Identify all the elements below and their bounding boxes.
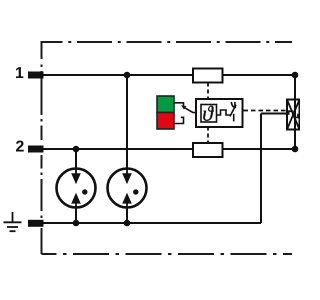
dashed link monitor to arrester: [244, 110, 287, 112]
status indicator green cell: [157, 96, 174, 113]
wire ground bus: [43, 222, 261, 224]
junction node line2/GDT1: [73, 146, 80, 153]
thermal sensor inner box: [201, 105, 217, 123]
wire arrester branch (line1 to line2): [294, 75, 296, 149]
wire GDT1 bottom drop: [75, 206, 77, 223]
label terminal 1: [16, 67, 23, 78]
enclosure border top (dash-dot): [42, 41, 293, 43]
gas discharge tube F2 (line1 - ground): [108, 169, 147, 208]
changeover contact upper fixed: [174, 103, 184, 106]
junction node line1/arrester: [292, 72, 299, 79]
dashed link monitor to R2: [207, 127, 209, 144]
resistor R1 on line 1: [193, 69, 223, 83]
resistor R2 on line 2: [193, 143, 223, 157]
wire GDT2 bottom drop: [126, 206, 128, 223]
enclosure border bottom (dash-dot): [42, 253, 293, 255]
wire ground link vertical: [260, 114, 262, 224]
junction node ground/GDT2: [124, 220, 131, 227]
junction node ground/GDT1: [73, 220, 80, 227]
gas discharge tube F1 (line2 - ground): [57, 169, 96, 208]
terminal 2 block: [28, 146, 44, 153]
ground terminal block: [28, 220, 44, 227]
label terminal 2: [16, 141, 24, 152]
wire ground link horizontal: [261, 113, 287, 115]
wire line 1: [43, 74, 295, 76]
theta symbol: [203, 106, 214, 121]
remote signalling step line: [217, 110, 231, 115]
enclosure border left (dash-dot): [41, 41, 43, 254]
junction node line2/arrester: [292, 146, 299, 153]
wire GDT2 top drop from line 1: [126, 75, 128, 170]
status indicator red cell: [157, 113, 174, 130]
thermal monitor box U1: [196, 99, 243, 127]
wire line 2: [43, 148, 295, 150]
changeover contact lower fixed: [174, 117, 184, 123]
ground symbol: [4, 212, 22, 231]
terminal 1 block: [28, 72, 44, 79]
changeover contact arm with arrowhead: [181, 105, 196, 112]
thermal disconnect switch: [230, 102, 236, 122]
junction node line1/GDT2: [124, 72, 131, 79]
combined arrester element (crossed box with suppressor bars): [287, 100, 300, 130]
wire GDT1 top drop: [75, 149, 77, 170]
dashed link R1 to monitor: [207, 83, 209, 100]
